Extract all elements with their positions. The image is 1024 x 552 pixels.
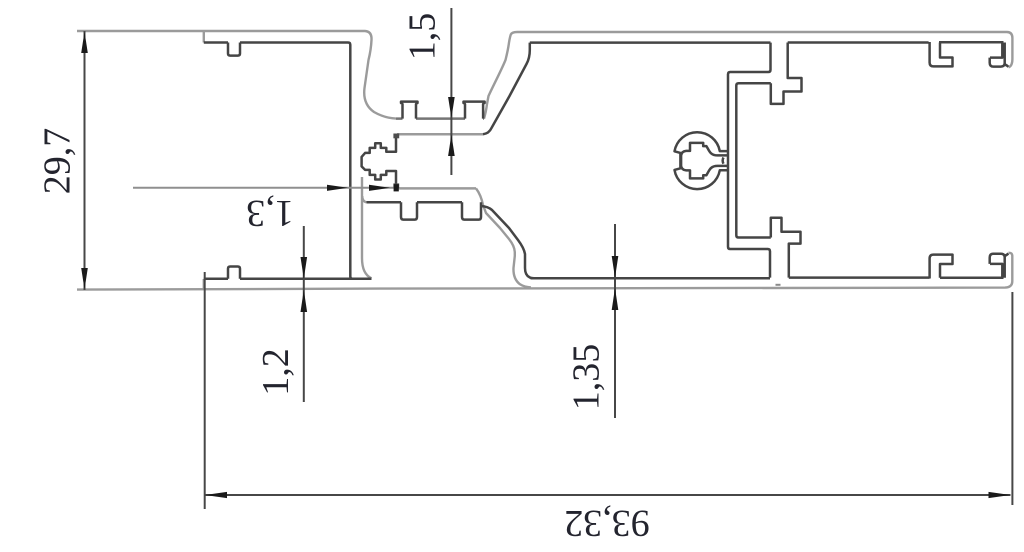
svg-text:29,7: 29,7: [36, 128, 78, 195]
svg-text:1,35: 1,35: [565, 344, 607, 411]
svg-text:1,2: 1,2: [255, 348, 297, 396]
svg-text:93,32: 93,32: [564, 502, 650, 544]
svg-text:1,5: 1,5: [401, 13, 443, 61]
svg-text:1,3: 1,3: [246, 192, 294, 234]
